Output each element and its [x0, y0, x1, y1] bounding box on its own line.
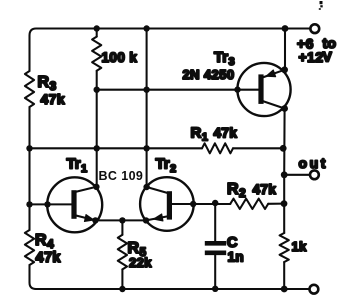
wire right rail from Tr3 collector down [283, 109, 285, 234]
wire R1 row left segment [30, 147, 203, 149]
node R1 row at right rail [280, 145, 287, 152]
node Tr2 emitter at circle [143, 217, 149, 223]
node top rail at 100k [94, 25, 100, 31]
node base row crossing middle vertical [143, 87, 149, 93]
node top rail at middle vertical [143, 25, 149, 31]
terminal bottom return [310, 285, 319, 294]
node R5 top [119, 217, 125, 223]
node 100k bottom [94, 87, 100, 93]
transistor Tr2 BC109 npn mirrored [140, 156, 194, 231]
resistor 100k [92, 29, 137, 71]
node Tr3 collector at rail [281, 105, 288, 112]
wire R2 to right rail [268, 203, 284, 205]
resistor R1 [191, 125, 238, 154]
resistor R5 [118, 220, 152, 289]
wire left rail lower segment with bottom corner [30, 265, 37, 289]
node R1 row at Tr2 collector line [143, 145, 149, 151]
transistor Tr1 BC109 npn [47, 156, 102, 233]
wire from 100k down to Tr1 collector node [96, 71, 98, 187]
node out junction [281, 171, 288, 178]
svg-text:47k: 47k [41, 91, 66, 107]
node Tr1 base at circle [44, 201, 50, 207]
wire out stub [284, 174, 310, 176]
label BC 109 [99, 169, 144, 183]
wire Tr2 base to R2 [169, 203, 230, 205]
node top rail at supply [282, 25, 289, 32]
node Tr1 emitter at circle [92, 217, 98, 223]
node bottom rail at C [212, 286, 218, 292]
svg-text:V: V [323, 49, 333, 65]
svg-text:47k: 47k [214, 126, 238, 141]
wire scan artifact dots top right [319, 1, 323, 10]
svg-text:BC 109: BC 109 [99, 169, 144, 183]
wire R1 row right segment [233, 147, 283, 149]
wire left rail middle segment [28, 107, 30, 230]
wire Tr1 base from left rail [30, 203, 72, 205]
svg-text:47k: 47k [253, 182, 277, 197]
wire left rail upper segment [28, 36, 30, 72]
wire bottom ground rail [36, 288, 310, 290]
svg-text:1k: 1k [292, 239, 308, 254]
svg-text:Tr1: Tr1 [67, 156, 88, 176]
terminal out [299, 155, 329, 179]
wire right rail top segment [284, 29, 286, 70]
svg-text:22k: 22k [129, 255, 152, 270]
node Tr3 emitter at rail [281, 66, 288, 73]
terminal +V supply [297, 24, 337, 65]
transistor Tr3 2N4250 pnp [183, 49, 291, 116]
svg-text:2N 4250: 2N 4250 [183, 67, 235, 82]
wire middle vertical from top rail to Tr2 collector [146, 29, 148, 188]
node R1 row at left rail [26, 145, 32, 151]
node R1 row at Tr1 collector line [94, 145, 100, 151]
svg-text:100 k: 100 k [102, 50, 138, 65]
wire Tr3 base row [97, 89, 259, 91]
node bottom rail at R5 [119, 286, 125, 292]
resistor R4 [25, 230, 62, 266]
svg-text:+12: +12 [299, 49, 324, 65]
svg-text:R4: R4 [35, 232, 54, 251]
capacitor C 1n [205, 203, 244, 289]
node Tr2 base at circle [190, 201, 196, 207]
wire top supply rail [30, 29, 311, 36]
resistor R2 [227, 181, 276, 209]
wire emitter row Tr1 to Tr2 [95, 219, 146, 221]
node bottom rail at 1k [281, 286, 288, 293]
node Tr2 collector at circle [143, 184, 149, 190]
svg-text:R2: R2 [227, 181, 246, 200]
resistor R3 [25, 71, 65, 107]
svg-text:out: out [299, 155, 329, 171]
node left rail at Tr1 base [26, 201, 32, 207]
svg-text:Tr2: Tr2 [156, 156, 177, 176]
node Tr3 base at circle [234, 86, 240, 92]
node Tr1 collector at circle [93, 184, 99, 190]
node R2 at right rail [281, 200, 288, 207]
node C top [212, 200, 218, 206]
svg-text:1n: 1n [228, 250, 245, 265]
resistor 1k [280, 233, 308, 289]
svg-text:47k: 47k [36, 250, 62, 266]
svg-text:R1: R1 [191, 125, 209, 144]
svg-text:Tr3: Tr3 [214, 49, 235, 68]
